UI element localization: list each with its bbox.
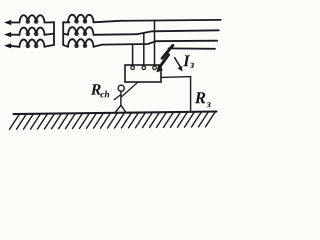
source arrow phase A (left, top) <box>4 20 11 25</box>
current Iz arrowhead <box>178 66 183 72</box>
earth hatching <box>10 112 216 130</box>
phase line 1 (top) <box>94 20 221 22</box>
label Rz z <box>207 102 211 107</box>
fault lightning arrowhead <box>157 65 164 72</box>
neutral stub line <box>169 47 216 49</box>
label Rch R <box>91 84 101 94</box>
primary winding L2 (middle-left coil) <box>20 28 45 35</box>
secondary winding L4 (top-right coil) <box>68 15 94 23</box>
wire arrow B shaft <box>10 34 20 36</box>
wire arrow A shaft <box>10 22 20 24</box>
label Rz R <box>195 92 206 103</box>
person: head <box>118 85 124 91</box>
label Iz I <box>183 55 190 66</box>
wire arrow C shaft <box>10 46 20 47</box>
phase line 3 (bottom) <box>94 41 218 47</box>
primary winding L3 (bottom-left coil) <box>20 40 45 47</box>
wire bus to secondary winding L5 <box>63 34 68 35</box>
paper background <box>0 0 229 150</box>
wire coil L1 to star bus <box>45 21 55 23</box>
person: body <box>120 91 122 105</box>
source arrow phase C (left, bottom) <box>4 43 11 48</box>
person: left leg <box>115 105 121 113</box>
fault lightning bolt stroke 1 <box>162 45 173 58</box>
terminal 1 <box>131 66 135 70</box>
terminal 2 <box>142 66 146 70</box>
terminal 3 <box>153 66 157 70</box>
label Rch h <box>105 91 110 98</box>
wire coil L2 to star bus <box>45 34 55 35</box>
earth surface line <box>14 112 217 115</box>
secondary star-point bus <box>62 22 64 45</box>
secondary winding L6 (bottom-right coil) <box>68 39 94 47</box>
current Iz arrow shaft <box>175 58 180 67</box>
equipment enclosure box <box>125 65 161 82</box>
source arrow phase B (left, middle) <box>4 32 11 37</box>
wire bus to secondary winding L6 <box>63 45 68 47</box>
label Iz z <box>190 63 194 68</box>
secondary winding L5 (middle-right coil) <box>68 27 94 35</box>
grounding conductor to Rz <box>161 77 191 112</box>
person: right arm touching box <box>121 82 138 97</box>
label Rch c <box>100 93 104 98</box>
phase line 2 (middle) <box>94 30 219 35</box>
wire coil L3 to star bus <box>45 45 55 47</box>
drop wire phase1 to terminal <box>154 21 156 66</box>
drop wire phase3 to terminal <box>132 44 134 66</box>
wire bus to secondary winding L4 <box>63 21 69 23</box>
drop wire phase2 to terminal <box>143 33 145 66</box>
person: right leg <box>121 105 126 112</box>
primary star-point bus <box>53 22 55 45</box>
fault lightning bolt stroke 2 <box>160 55 169 67</box>
person: left arm <box>114 95 121 100</box>
primary winding L1 (top-left coil) <box>20 15 45 22</box>
